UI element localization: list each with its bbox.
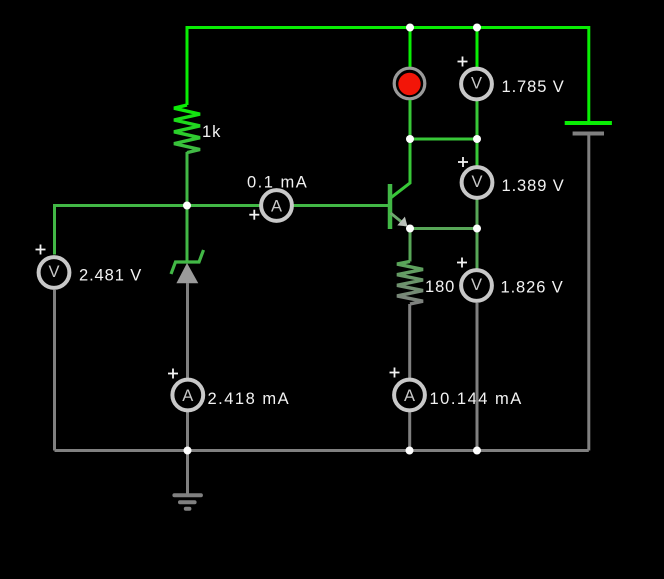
- ammeter A3 10.144 mA: [390, 368, 523, 411]
- resistor R1 1k: [174, 105, 221, 153]
- svg-text:A: A: [182, 387, 193, 405]
- svg-text:V: V: [471, 276, 482, 294]
- svg-text:2.418 mA: 2.418 mA: [208, 390, 291, 408]
- svg-text:1.785 V: 1.785 V: [502, 78, 565, 96]
- ammeter A1 0.1 mA: [247, 174, 308, 221]
- svg-text:V: V: [48, 263, 59, 281]
- wire LED anode lead: [409, 26, 412, 67]
- wire zener anode to ground rail: [186, 283, 189, 451]
- voltmeter V4 1.826 V: [457, 229, 564, 451]
- emitter lead: [391, 213, 407, 226]
- wire ground stem: [186, 451, 189, 496]
- node top rail voltmeter tap: [473, 24, 481, 32]
- wire R2 to ground rail: [408, 304, 411, 451]
- node collector right: [473, 135, 481, 143]
- svg-text:1.826 V: 1.826 V: [501, 278, 564, 296]
- svg-text:2.481 V: 2.481 V: [79, 266, 142, 284]
- wire emitter rail 1.83V: [410, 227, 477, 230]
- node emitter left: [406, 225, 414, 233]
- wire battery positive lead: [587, 26, 590, 121]
- svg-text:V: V: [471, 75, 482, 93]
- ammeter A2 2.418 mA: [168, 369, 290, 411]
- wire collector rail 3.2V: [410, 138, 477, 141]
- node base-zener junction: [183, 202, 191, 210]
- svg-text:1k: 1k: [202, 123, 221, 141]
- wire battery negative lead: [587, 134, 590, 451]
- wire R1 bottom to node: [186, 152, 189, 206]
- wire bottom rail 0V: [55, 449, 589, 452]
- node collector left: [406, 135, 414, 143]
- svg-text:180: 180: [425, 278, 455, 296]
- voltmeter V1 2.481 V: [36, 245, 143, 451]
- node ground junction: [184, 447, 192, 455]
- svg-text:A: A: [271, 198, 282, 216]
- node bottom rail A3: [406, 447, 414, 455]
- svg-text:1.389 V: 1.389 V: [502, 177, 565, 195]
- voltmeter V3 1.389 V: [458, 139, 565, 229]
- transistor Q1: [390, 139, 410, 229]
- wire emitter to R2: [409, 229, 412, 262]
- resistor R2 180: [397, 261, 455, 304]
- node bottom rail V4: [473, 447, 481, 455]
- node top rail LED tap: [406, 24, 414, 32]
- wire top rail 5V: [187, 28, 589, 106]
- zener diode: [171, 250, 204, 283]
- ground: [174, 495, 201, 508]
- svg-text:V: V: [471, 173, 482, 191]
- svg-text:A: A: [404, 387, 415, 405]
- emitter arrow: [397, 217, 407, 227]
- base bar: [388, 184, 393, 229]
- node emitter right: [473, 225, 481, 233]
- voltmeter V2 1.785 V: [458, 26, 565, 139]
- zener diode cathode lead: [186, 206, 189, 263]
- LED: [394, 68, 425, 99]
- svg-text:0.1 mA: 0.1 mA: [247, 174, 308, 192]
- collector lead: [391, 139, 411, 198]
- wire LED cathode lead: [409, 100, 412, 139]
- battery 5V: [565, 123, 612, 134]
- wire base rail 2.48V: [55, 206, 390, 255]
